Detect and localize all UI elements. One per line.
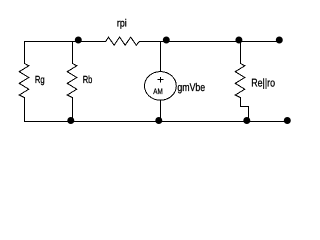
svg-text:Rg: Rg [35,75,45,86]
svg-text:AM: AM [153,87,163,96]
svg-text:rpi: rpi [117,18,127,30]
svg-text:Rb: Rb [83,75,93,86]
svg-text:Re||ro: Re||ro [251,77,275,89]
svg-text:gmVbe: gmVbe [177,82,205,94]
